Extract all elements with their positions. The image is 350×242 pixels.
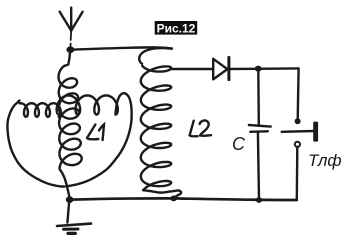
antenna — [60, 8, 83, 50]
figure label box Ris.12 — [155, 21, 198, 35]
L1 blob outline left-bottom — [7, 101, 64, 187]
headphone magnet bar — [313, 122, 318, 142]
ground node dot — [66, 196, 74, 203]
node A junction dot — [66, 46, 74, 53]
node B junction dot — [255, 66, 262, 72]
wire top (antenna junction to L2) — [74, 47, 161, 49]
headphone top dot — [295, 118, 301, 124]
wire diode to right branch — [229, 67, 299, 70]
label L1 — [87, 124, 104, 140]
headphone bottom terminal circle — [295, 142, 300, 147]
L1 blob outline right — [66, 93, 132, 186]
ground symbol — [57, 201, 91, 233]
node L2-bottom junction dot — [170, 196, 176, 202]
svg-text:C: C — [232, 134, 246, 154]
wire L2 to diode — [172, 68, 213, 70]
coil L1 horizontal winding — [20, 95, 118, 116]
wire capacitor to bottom — [258, 132, 259, 200]
headphone Tlf membrane — [282, 130, 314, 133]
svg-text:Рис.12: Рис.12 — [157, 21, 196, 35]
wire node B down to capacitor — [257, 69, 260, 125]
diode D1 — [213, 57, 229, 79]
bottom wire — [70, 198, 297, 200]
svg-text:Тлф: Тлф — [308, 151, 342, 170]
coil L2 — [139, 48, 173, 64]
coil L2 bottom tail to node — [143, 190, 181, 198]
wire L1 bottom to ground node — [66, 183, 70, 199]
wire headphone to bottom — [296, 148, 299, 200]
coil L1 vertical winding — [59, 50, 82, 183]
label L2 — [190, 120, 211, 136]
capacitor C — [249, 125, 271, 132]
wire right branch down — [297, 68, 300, 120]
node C-bottom junction dot — [256, 197, 262, 203]
